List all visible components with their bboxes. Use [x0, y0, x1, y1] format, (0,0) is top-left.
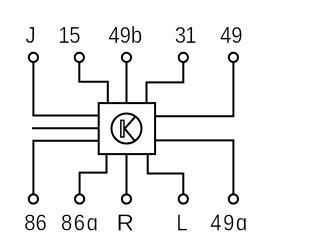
svg-text:49ɑ: 49ɑ: [210, 209, 249, 236]
svg-text:15: 15: [58, 22, 80, 49]
svg-text:49b: 49b: [108, 22, 142, 49]
svg-text:R: R: [116, 210, 133, 235]
svg-text:31: 31: [175, 22, 196, 49]
svg-text:J: J: [26, 22, 36, 49]
svg-text:L: L: [176, 209, 187, 236]
svg-text:49: 49: [220, 22, 243, 49]
svg-text:86ɑ: 86ɑ: [61, 209, 100, 236]
svg-text:86: 86: [24, 209, 47, 236]
